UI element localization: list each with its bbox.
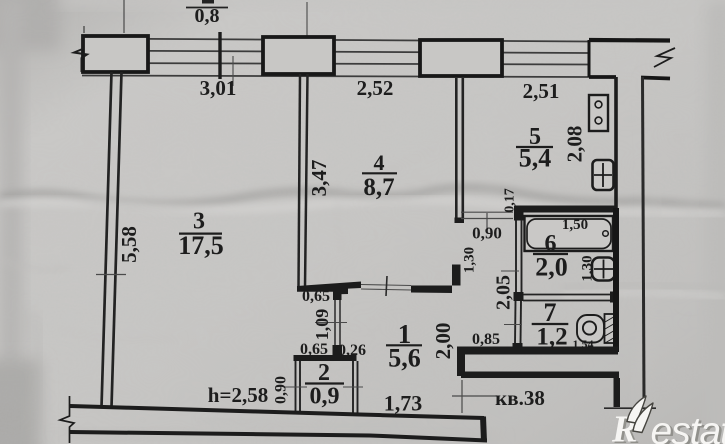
toilet room label	[532, 298, 569, 351]
break tick bottom-right	[604, 407, 656, 409]
closet right wall	[353, 361, 358, 413]
partition right cap	[610, 292, 618, 303]
bottom wall right jog	[480, 416, 487, 442]
stove	[589, 95, 608, 131]
svg-text:0,9: 0,9	[310, 384, 340, 410]
closet top wall	[294, 355, 357, 361]
room 4 door opening threshold	[361, 285, 411, 291]
balcony pier P2	[263, 37, 334, 74]
svg-text:0,65: 0,65	[302, 288, 330, 305]
thin dimension tick	[232, 56, 234, 86]
svg-text:17,5: 17,5	[178, 231, 224, 260]
lower landing wall	[461, 372, 619, 379]
end cap of wall at kitchen opening	[455, 218, 465, 224]
kitchen bottom wall / bathroom top wall	[514, 206, 615, 213]
svg-text:1,50: 1,50	[562, 217, 588, 233]
kitchen shaft wall right line	[643, 77, 645, 401]
svg-text:2,0: 2,0	[535, 253, 568, 282]
hall bottom-right step wall vertical	[457, 354, 465, 376]
tick for 2,05 top	[501, 270, 519, 272]
bathroom block left wall	[516, 220, 522, 292]
svg-text:5,6: 5,6	[388, 344, 421, 373]
bottom outer wall lower line	[70, 430, 487, 443]
door opening tick	[386, 276, 387, 296]
partition room3/hall	[335, 300, 340, 346]
balcony railing lines	[82, 39, 589, 78]
kitchen opening threshold lines	[461, 212, 513, 228]
svg-text:2: 2	[318, 360, 330, 386]
svg-text:5,4: 5,4	[519, 144, 552, 173]
left outer wall	[102, 72, 122, 407]
watermark Restate	[611, 396, 725, 444]
toilet block bottom wall	[457, 347, 618, 355]
room 3 label	[178, 209, 224, 261]
dimension tick between 0,8 and 3,01	[218, 32, 221, 79]
bathtub	[525, 216, 614, 251]
room 4 bottom wall right segment	[411, 265, 461, 294]
partition dimension tick 1,09	[315, 322, 347, 324]
closet label	[305, 360, 344, 410]
toilet left wall bottom cap	[513, 343, 523, 352]
svg-text:кв.38: кв.38	[495, 386, 545, 410]
kitchen label	[516, 124, 553, 173]
bathroom/toilet right wall	[613, 208, 619, 352]
svg-text:3,01: 3,01	[200, 76, 237, 100]
svg-text:8,7: 8,7	[363, 174, 394, 201]
svg-text:2,00: 2,00	[431, 323, 455, 360]
break symbol left of pier P1	[74, 36, 87, 72]
closet width dimension line	[284, 386, 363, 388]
bathroom block left wall middle cap	[514, 292, 524, 301]
tick for 2,05 bottom	[504, 324, 522, 326]
balcony pier P3	[420, 40, 502, 76]
toilet tank with hatch	[605, 314, 618, 343]
bathroom label	[533, 231, 568, 282]
wall between rooms 3 and 4	[299, 74, 308, 287]
extension line for balcony dimension	[306, 2, 308, 76]
dimension tick on left wall	[96, 274, 126, 276]
hallway label	[386, 319, 422, 373]
dimension line 1,73	[452, 380, 497, 413]
bathroom block left wall top cap	[514, 213, 524, 221]
room 4 label	[362, 150, 397, 201]
svg-text:3,47: 3,47	[307, 160, 331, 197]
svg-text:2,08: 2,08	[562, 126, 586, 163]
svg-text:5,58: 5,58	[117, 226, 141, 263]
kitchen sink	[593, 160, 614, 190]
svg-text:1,2: 1,2	[536, 324, 567, 351]
svg-text:1,73: 1,73	[384, 391, 423, 416]
top-right wall band	[589, 40, 670, 79]
svg-text:4: 4	[374, 150, 385, 175]
break symbol at right end of top wall	[654, 48, 675, 67]
svg-text:0,85: 0,85	[472, 331, 500, 348]
right outer wall lower segment	[614, 378, 621, 407]
toilet bowl	[577, 315, 604, 343]
svg-text:1,09: 1,09	[312, 309, 332, 341]
svg-text:0,8: 0,8	[195, 5, 220, 27]
svg-text:1,30: 1,30	[461, 247, 477, 273]
closet left wall	[296, 361, 301, 412]
svg-text:0,90: 0,90	[273, 376, 290, 404]
balcony pier P1	[83, 0, 148, 72]
bottom outer wall upper line	[70, 404, 484, 420]
room 4 bottom wall left segment	[297, 282, 361, 295]
svg-text:estate: estate	[651, 410, 725, 444]
svg-text:2,51: 2,51	[523, 79, 560, 103]
break symbol bottom-left	[60, 396, 74, 443]
kitchen shaft wall left line	[614, 77, 618, 208]
svg-text:2,05: 2,05	[493, 275, 515, 310]
partition between bathroom and toilet	[523, 295, 613, 301]
svg-text:h=2,58: h=2,58	[208, 383, 268, 407]
balcony area label 0,8	[186, 0, 228, 27]
toilet left wall	[515, 301, 521, 344]
svg-text:0,90: 0,90	[472, 224, 502, 243]
partition bottom stub	[333, 345, 343, 355]
partition room3/hall top stub	[333, 290, 342, 300]
bathroom washbasin	[592, 258, 615, 281]
svg-text:2,52: 2,52	[357, 76, 394, 100]
wall between room 4 and kitchen	[456, 78, 463, 218]
